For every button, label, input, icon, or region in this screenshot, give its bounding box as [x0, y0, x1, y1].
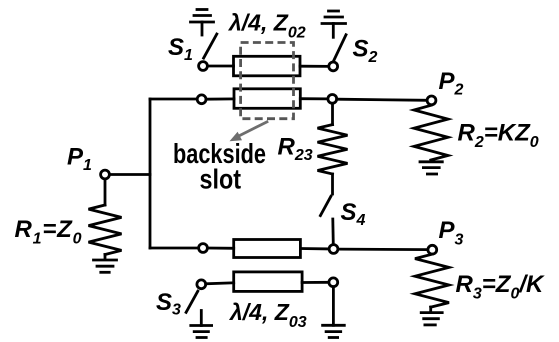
switch S1 arm — [204, 34, 217, 58]
ground G1 above switch S1 (inverted) — [191, 10, 214, 36]
ground under R1 — [94, 255, 117, 273]
svg-text:R1=Z0: R1=Z0 — [15, 216, 83, 248]
arrow to backside slot — [230, 121, 269, 141]
switch S4 arm — [320, 196, 331, 215]
svg-text:R2=KZ0: R2=KZ0 — [458, 120, 539, 152]
wire port P1 to trunk — [109, 173, 150, 176]
svg-text:slot: slot — [200, 164, 242, 195]
wire row2 node to TL2 — [206, 98, 234, 101]
port P3 circle — [428, 245, 437, 254]
node S2 terminal circle — [329, 62, 338, 71]
node row4 right circle — [329, 278, 338, 287]
wire R23 top lead — [331, 103, 334, 124]
wire row3: trunk corner to left node — [150, 247, 199, 250]
wire row3 to port P3 — [338, 248, 428, 251]
transmission line TL2 (lower λ/4 Z02 line) — [234, 89, 300, 109]
node S1 terminal circle — [199, 62, 208, 71]
node row4 left circle (S3 terminal) — [197, 280, 206, 289]
resistor R3 zigzag — [415, 254, 449, 307]
ground G2 above switch S2 (inverted) — [322, 11, 346, 37]
port P2 circle — [427, 96, 436, 105]
wire row2 right node to port P2 — [337, 99, 427, 100]
wire TL4 to row4 right node — [302, 281, 329, 284]
wire row3 node to TL3 — [207, 247, 233, 250]
wire TL2 to row2 right node — [300, 97, 328, 100]
switch S3 arm — [186, 291, 198, 312]
ground under row4 right node — [323, 287, 345, 338]
ground under R2 — [420, 162, 442, 174]
ground under S3 — [191, 311, 212, 338]
transmission line TL4 (lower λ/4 Z03 line) — [234, 272, 302, 292]
wire row2: trunk corner to left node — [150, 98, 197, 101]
dashed backside-slot outline — [241, 43, 294, 119]
node S4 / row3 junction circle — [329, 245, 338, 254]
resistor R2 zigzag — [414, 105, 448, 160]
transmission line TL1 (upper λ/4 Z02 line) — [234, 56, 301, 76]
wire S4 bottom lead to row3 node — [331, 219, 334, 245]
wire TL1 to S2 — [300, 65, 329, 68]
node row2 left circle — [197, 95, 206, 104]
wire R23 to switch S4 — [331, 174, 334, 194]
switch S2 arm — [334, 35, 346, 61]
svg-text:R3=Z0/K: R3=Z0/K — [456, 271, 546, 303]
resistor R23 zigzag — [318, 125, 348, 174]
ground under R3 — [421, 307, 442, 325]
wire S1 to TL1 — [208, 65, 234, 68]
wire TL3 to S4 node — [300, 247, 329, 250]
resistor R1 zigzag — [89, 205, 122, 255]
wire P1 down lead — [104, 179, 107, 205]
transmission line TL3 (upper λ/4 Z03 line) — [234, 240, 301, 258]
port P1 circle — [101, 170, 110, 179]
node row3 left circle — [199, 244, 208, 253]
vertical trunk wire from row2 to row3 — [149, 99, 152, 248]
wire row4 node to TL4 — [206, 283, 234, 284]
node row2 right circle — [328, 95, 337, 104]
